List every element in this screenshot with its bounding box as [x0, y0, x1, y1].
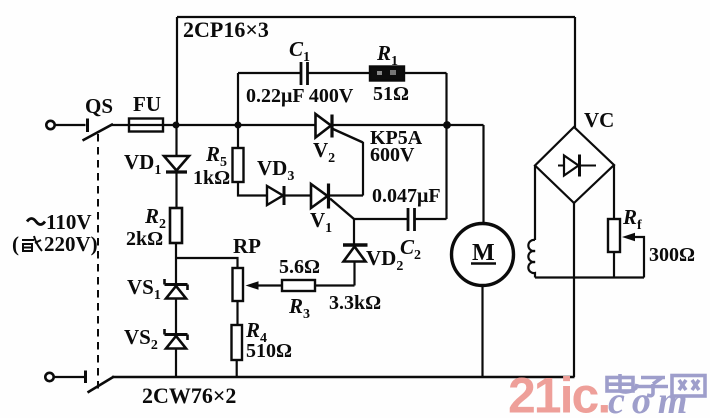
fuse FU — [129, 119, 163, 132]
wire down to motor — [482, 125, 484, 224]
wire vertical from top rail down to VC bridge — [574, 17, 576, 128]
resistor R1 — [370, 67, 404, 81]
Rf wiper arrow wire — [634, 237, 644, 278]
thyristor V2 — [316, 114, 364, 143]
field winding coil — [528, 166, 535, 278]
wire VD3 to V1 — [285, 194, 311, 196]
arrowhead RP wiper — [246, 281, 259, 290]
wire main line FU to V2 — [163, 124, 316, 126]
thyristor V1 — [311, 184, 354, 220]
resistor R5 — [233, 148, 244, 182]
wire switch to fuse — [111, 124, 129, 126]
svg-text:3.3kΩ: 3.3kΩ — [329, 292, 381, 314]
wire R4 to bottom rail — [236, 360, 238, 377]
wire VC bottom vertex to bottom rail — [573, 203, 575, 377]
wire top rail — [177, 16, 575, 18]
resistor R5 branch — [237, 125, 239, 148]
svg-text:M: M — [472, 240, 495, 266]
svg-text:(: ( — [12, 232, 19, 256]
zener VS1 — [165, 279, 188, 334]
svg-text:110V: 110V — [46, 210, 92, 234]
wire V1 gate node to C2 — [354, 218, 407, 220]
bridge rectifier VC — [535, 127, 614, 203]
diode VD2 — [343, 219, 368, 286]
svg-text:1kΩ: 1kΩ — [193, 167, 230, 189]
wire bottom rail — [112, 376, 575, 378]
watermark 21ic.com dianziwang — [508, 368, 705, 418]
wire motor bottom lead — [481, 286, 483, 378]
zener VS2 — [165, 329, 188, 377]
svg-text:0.047μF: 0.047μF — [372, 185, 441, 207]
wire terminal to switch — [55, 124, 86, 126]
wire VC right vertex to Rf — [613, 165, 615, 220]
capacitor C1 branch riser — [237, 73, 239, 125]
svg-text:300Ω: 300Ω — [649, 244, 695, 266]
svg-text:2kΩ: 2kΩ — [126, 228, 163, 250]
resistor R2 — [170, 208, 182, 243]
svg-text:600V: 600V — [370, 144, 415, 166]
svg-text:5.6Ω: 5.6Ω — [279, 256, 320, 278]
wire V2 gate riser — [362, 142, 364, 196]
wire branch to RP — [176, 258, 238, 268]
wire RP to R4 — [236, 301, 238, 325]
svg-text:2CP16×3: 2CP16×3 — [183, 17, 269, 42]
diode VD1 — [164, 125, 189, 208]
junction node at FU output — [173, 122, 180, 129]
wire lower terminal to switch — [54, 376, 85, 378]
svg-text:2CW76×2: 2CW76×2 — [142, 383, 236, 408]
junction node at R5/C1 branch — [235, 122, 242, 129]
switch lower blade — [86, 371, 115, 393]
potentiometer Rf — [608, 219, 620, 252]
wire V1 cathode to V2 gate riser — [329, 194, 363, 196]
terminal lower AC input — [45, 373, 53, 381]
svg-text:VC: VC — [584, 108, 614, 132]
junction node at snubber/C2 riser — [443, 121, 451, 129]
svg-text:QS: QS — [85, 94, 113, 118]
resistor R3 — [282, 280, 315, 291]
resistor R4 — [232, 325, 243, 360]
wire coil/Rf bottom link — [535, 276, 644, 278]
label (or 220V) — [12, 232, 98, 256]
terminal upper AC input — [46, 121, 54, 129]
svg-text:510Ω: 510Ω — [246, 340, 292, 362]
svg-text:21ic.: 21ic. — [508, 368, 609, 418]
arrowhead Rf wiper — [622, 233, 635, 241]
wire Rf bottom — [613, 252, 615, 278]
diode VD3 — [267, 186, 284, 205]
dashed gang link of QS — [97, 134, 99, 392]
capacitor C1 — [301, 62, 308, 85]
wire R3 to RP wiper arrow — [256, 284, 282, 286]
svg-text:51Ω: 51Ω — [373, 83, 409, 105]
wire R2 to VS1 — [175, 243, 177, 283]
label ~110V — [27, 210, 92, 234]
wire C1 to R1 — [309, 72, 371, 74]
wire right riser (R1/C1 + C2 common) — [445, 73, 447, 219]
switch QS — [83, 119, 114, 141]
svg-text:FU: FU — [133, 92, 161, 116]
svg-text:RP: RP — [233, 234, 261, 258]
svg-text:com: com — [608, 380, 694, 418]
capacitor C2 — [408, 208, 415, 231]
potentiometer RP — [233, 268, 244, 301]
wire VD2 to R3 — [315, 284, 355, 286]
wire C1 row left — [238, 72, 300, 74]
motor M circle — [452, 224, 514, 286]
svg-text:0.22μF 400V: 0.22μF 400V — [246, 85, 354, 107]
wire C2 to right riser — [416, 218, 447, 220]
wire R5 to VD3 row — [238, 182, 267, 196]
wire main line V2 cathode to M corner — [333, 124, 484, 126]
wire left vertical from top rail to main line — [176, 17, 178, 125]
label M — [471, 240, 496, 266]
wire R1 to right riser — [404, 72, 447, 74]
svg-text:220V): 220V) — [44, 232, 98, 256]
